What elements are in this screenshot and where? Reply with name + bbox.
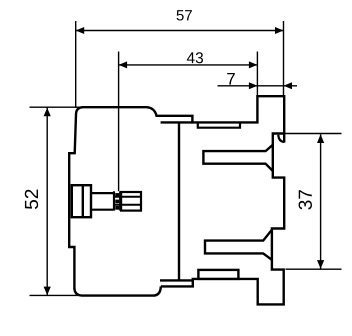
- ext 52 bottom: [30, 294, 81, 296]
- ext line 57/7 right: [283, 21, 285, 96]
- label 37: [299, 190, 312, 209]
- label 52: [25, 190, 38, 209]
- right side outline: [161, 134, 286, 305]
- screw head box: [121, 192, 141, 211]
- screw collar bar2: [119, 191, 121, 210]
- body outline left top block: [69, 96, 284, 288]
- label 7: [227, 73, 235, 85]
- arrow 52 top: [44, 108, 51, 117]
- ext 52 top: [30, 106, 80, 108]
- ext 37 top: [286, 133, 342, 135]
- plate divider: [82, 185, 84, 217]
- ext line 43 left: [118, 52, 120, 192]
- dim line 7: [218, 85, 298, 87]
- coil terminal plate: [72, 185, 91, 217]
- ext 37 bottom: [286, 268, 342, 270]
- arrow 7 right outside: [284, 82, 293, 89]
- contactor body fill: [69, 96, 284, 304]
- dim line 43: [119, 64, 258, 66]
- dim line 37: [320, 134, 322, 269]
- arrow 37 top: [317, 134, 324, 143]
- arrow 57 left: [76, 27, 85, 34]
- screw head slot lines: [114, 197, 141, 205]
- arrow 7 left outside: [249, 82, 258, 89]
- ext line 57 left: [75, 21, 77, 108]
- pad1 bottom line: [161, 121, 193, 123]
- arrow 43 left: [119, 61, 128, 68]
- dim line 52: [46, 107, 48, 295]
- lower terminal: [205, 230, 272, 260]
- slot rect: [198, 122, 240, 127]
- fillet corner under block: [278, 135, 284, 142]
- division line: [178, 122, 180, 280]
- label 57: [177, 10, 192, 20]
- ext line 43/7 shared: [256, 52, 258, 96]
- upper terminal: [203, 145, 272, 171]
- label 43: [187, 52, 203, 63]
- screw collar bar1: [113, 191, 115, 210]
- bottom outline: [74, 286, 160, 295]
- arrow 37 bottom: [317, 260, 324, 269]
- arrow 52 bottom: [44, 287, 51, 296]
- arrow 57 right: [275, 27, 284, 34]
- screw thread blocks: [115, 193, 119, 197]
- bottom pad rect: [198, 270, 238, 279]
- screw neck: [91, 193, 114, 210]
- tab top line: [160, 279, 193, 281]
- arrow 43 right: [249, 61, 258, 68]
- dim line 57: [76, 30, 284, 32]
